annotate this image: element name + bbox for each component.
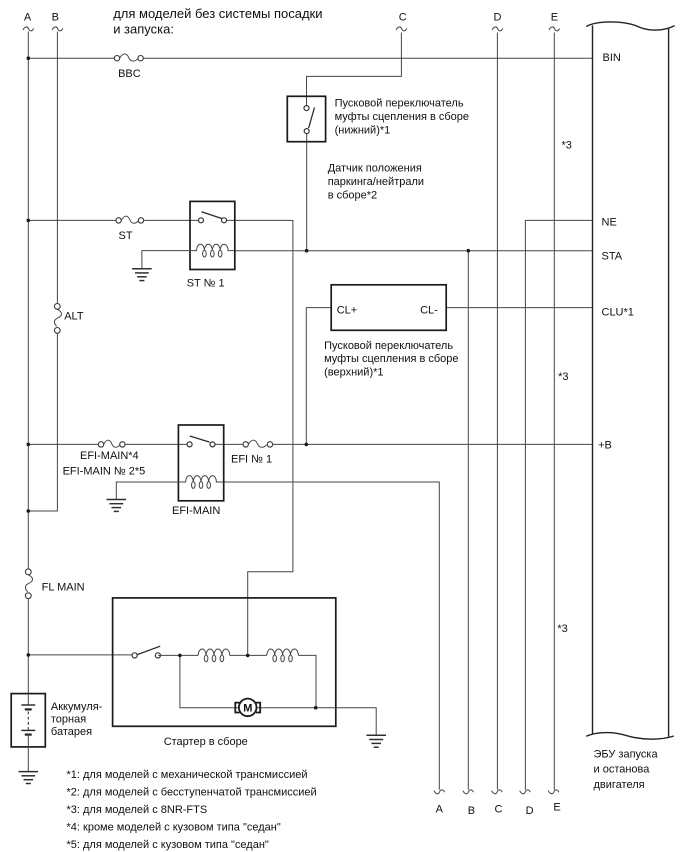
wire CL+ to +B junction [306,308,331,445]
junction node A/starter feed [27,653,31,657]
starter hold-in coil [267,649,299,662]
ECU caption [594,748,659,791]
wire STA branch to bottom B [467,251,469,790]
terminal C (top) [396,11,407,31]
svg-text:Датчик положения: Датчик положения [328,163,422,175]
ECU box (right edge) [668,28,670,737]
terminal B (bottom) [463,790,475,817]
wire E rail [553,33,555,790]
relay ST № 1 box [187,201,235,289]
starter pull-in coil [198,649,230,662]
terminal E (bottom) [548,790,560,814]
svg-text:A: A [24,11,32,23]
svg-text:B: B [52,11,59,23]
wire A rail lower [27,596,29,694]
starter assembly box [113,598,336,748]
junction node motor/ground [314,706,318,710]
svg-text:паркинга/нейтрали: паркинга/нейтрали [328,176,424,188]
svg-text:торная: торная [51,714,86,726]
wire EFI-MAIN coil to ground [116,482,178,500]
ECU box (left edge) [592,25,594,733]
note: header text [113,6,322,36]
junction node A/ST [27,219,31,223]
terminal E (top) [549,11,560,31]
wire hold-in coil down to motor node [298,655,316,707]
note: lower clutch switch caption [335,98,469,137]
terminal A (top) [23,11,34,31]
svg-text:ЭБУ запуска: ЭБУ запуска [594,748,659,760]
svg-text:E: E [551,11,558,23]
wire D rail (top D to bottom C) [496,33,498,790]
wire STA line [235,250,593,252]
ground (battery) [19,772,39,784]
svg-text:*3: *3 [557,623,567,635]
wire ST relay output to starter solenoid [224,220,293,655]
svg-text:STA: STA [602,251,623,263]
wire starter contact to pull-in coil [158,654,198,656]
svg-text:для моделей без системы посадк: для моделей без системы посадки [113,6,322,21]
svg-text:*1: для моделей с механической: *1: для моделей с механической трансмисс… [67,769,308,781]
terminal D (bottom) [520,790,534,817]
svg-text:D: D [494,11,502,23]
svg-text:BIN: BIN [603,52,621,64]
svg-text:M: M [243,703,252,715]
wire ST relay coil to ground [142,251,190,269]
junction node A/B-link [27,509,31,513]
wire lower clutch switch to STA junction [306,134,308,251]
svg-text:*3: *3 [562,140,572,152]
wire solenoid node down to motor [180,655,239,707]
wire between starter coils [230,654,267,656]
junction node A/+B [27,443,31,447]
note: park/neutral position sensor caption [328,163,424,202]
terminal A (bottom) [434,790,445,816]
junction node solenoid ST input [246,654,250,658]
svg-text:*2: для моделей с бесступенчат: *2: для моделей с бесступенчатой трансми… [67,787,317,799]
svg-text:и запуска:: и запуска: [113,21,174,36]
svg-text:муфты сцепления в сборе: муфты сцепления в сборе [335,111,469,123]
wire battery feed to starter [28,654,134,656]
svg-text:ST: ST [119,230,133,242]
wire motor to ground [257,708,377,736]
fuse FL MAIN [25,569,84,599]
wire ST row [28,219,201,221]
svg-text:EFI-MAIN*4: EFI-MAIN*4 [80,450,139,462]
relay EFI-MAIN contact [187,436,215,447]
svg-text:*4: кроме моделей с кузовом ти: *4: кроме моделей с кузовом типа "седан" [67,822,281,834]
svg-text:+B: +B [598,440,612,452]
fuse BBC [114,54,143,80]
svg-text:ALT: ALT [64,311,84,323]
ECU box (wavy bottom edge) [586,733,674,740]
wire +B row [28,443,592,445]
lower clutch start switch contact [304,106,315,134]
note: upper clutch switch caption [324,340,458,378]
starter magnetic switch contact [132,646,160,658]
svg-text:Аккумуля-: Аккумуля- [51,701,103,713]
terminal D (top) [492,11,503,31]
svg-text:в сборе*2: в сборе*2 [328,190,377,202]
junction node STA/clutch [305,249,309,253]
terminal B (top) [52,11,63,31]
svg-text:CLU*1: CLU*1 [602,306,634,318]
svg-text:и останова: и останова [594,764,651,776]
note: footnotes [67,769,317,851]
junction node solenoid left [178,654,182,658]
svg-text:BBC: BBC [118,68,141,80]
battery box [11,694,45,747]
wire CLU line [446,307,592,309]
relay EFI-MAIN box [172,425,224,517]
svg-text:D: D [526,805,534,817]
ground (starter motor) [366,735,386,747]
svg-text:C: C [399,11,407,23]
lower clutch start switch box [287,96,325,141]
ground (EFI-MAIN relay) [107,500,127,512]
fuse EFI № 1 [231,440,273,465]
svg-text:*3: для моделей с 8NR-FTS: *3: для моделей с 8NR-FTS [67,804,208,816]
svg-text:EFI № 1: EFI № 1 [231,453,272,465]
svg-text:C: C [495,804,503,816]
svg-text:B: B [468,805,475,817]
svg-text:Стартер в сборе: Стартер в сборе [164,736,248,748]
svg-text:Пусковой переключатель: Пусковой переключатель [335,98,464,110]
svg-text:CL+: CL+ [337,304,358,316]
junction node A/BBC [27,56,31,60]
ECU box (wavy top edge) [586,22,674,30]
wire BBC line (BIN) [28,57,592,59]
svg-text:ST № 1: ST № 1 [187,278,225,290]
svg-text:батарея: батарея [51,726,92,738]
relay ST № 1 contact [199,212,227,223]
note: battery caption [51,701,103,738]
wire EFI-MAIN coil to bottom A [224,482,440,790]
wire C drop to lower clutch switch [307,33,402,106]
wire B rail [28,32,57,512]
ground (ST relay) [132,269,152,281]
svg-text:CL-: CL- [420,304,438,316]
svg-text:муфты сцепления в сборе: муфты сцепления в сборе [324,353,458,365]
svg-text:Пусковой переключатель: Пусковой переключатель [324,340,453,352]
svg-text:A: A [436,804,444,816]
svg-text:E: E [553,802,560,814]
battery cell symbol [21,694,35,772]
svg-text:(верхний)*1: (верхний)*1 [324,366,383,378]
svg-text:*3: *3 [558,371,568,383]
relay ST № 1 coil [190,244,235,257]
wire NE line and bottom D rail [525,220,592,789]
fuse ST [116,216,144,242]
svg-text:EFI-MAIN № 2*5: EFI-MAIN № 2*5 [63,465,146,477]
svg-text:(нижний)*1: (нижний)*1 [335,125,391,137]
svg-text:двигателя: двигателя [594,779,645,791]
starter motor M1 [235,699,260,717]
relay EFI-MAIN coil [178,476,223,489]
upper clutch start switch box CL [331,285,446,331]
terminal C (bottom) [492,790,503,816]
junction node STA/bottom-B [467,249,471,253]
junction node +B/CL+ [305,443,309,447]
svg-text:EFI-MAIN: EFI-MAIN [172,505,220,517]
fuse ALT [54,304,83,334]
wire A rail upper [27,32,29,572]
svg-text:FL MAIN: FL MAIN [42,582,85,594]
svg-text:*5: для моделей с кузовом типа: *5: для моделей с кузовом типа "седан" [67,839,269,851]
fuse EFI-MAIN [63,440,146,477]
svg-text:NE: NE [602,217,617,229]
